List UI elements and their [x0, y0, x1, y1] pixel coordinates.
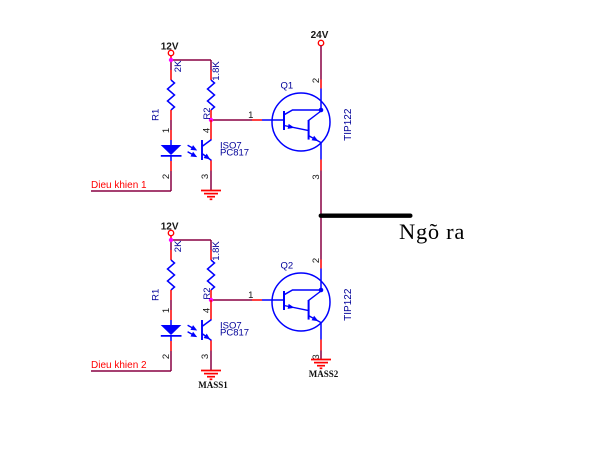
svg-text:Ngõ ra: Ngõ ra	[399, 219, 465, 244]
svg-text:Dieu khien 2: Dieu khien 2	[91, 360, 147, 371]
svg-text:MASS1: MASS1	[198, 380, 228, 390]
svg-text:Q1: Q1	[281, 81, 294, 92]
svg-text:MASS2: MASS2	[309, 369, 339, 379]
svg-text:24V: 24V	[311, 30, 329, 41]
svg-text:Q2: Q2	[281, 261, 294, 272]
svg-text:Dieu khien 1: Dieu khien 1	[91, 180, 147, 191]
